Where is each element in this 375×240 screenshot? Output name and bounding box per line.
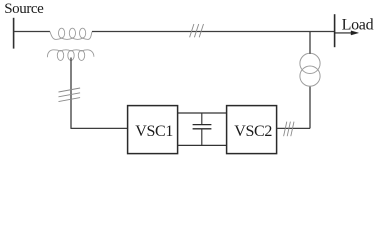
svg-text:VSC2: VSC2 [234,123,272,140]
DC link bottom rail [178,144,227,146]
wire: secondary coil down to VSC1 corner [70,58,72,129]
wire: series coil to load bus [92,31,335,33]
wire: source bus to series coil [14,31,50,33]
three-phase slash marks on series branch [59,88,81,102]
svg-text:Source: Source [4,1,44,17]
svg-text:Load: Load [342,16,374,33]
three-phase slash marks on main line [190,24,204,37]
DC link top rail [178,112,227,114]
wire: VSC2 to shunt transformer [277,127,310,129]
wire: transformer up to main line [309,32,311,54]
VSC2 box [227,106,277,154]
capacitor bottom lead [201,129,203,146]
three-phase slash marks on shunt branch [284,122,294,137]
VSC1 box [128,106,178,154]
capacitor plates [193,125,212,129]
wire: shunt branch vertical up to transformer [309,86,311,128]
load arrow [335,31,359,35]
series transformer secondary coil [47,50,94,61]
series transformer primary coil [50,28,92,39]
wire: corner to VSC1 [71,127,128,129]
svg-text:VSC1: VSC1 [135,123,173,140]
shunt transformer top winding [300,53,320,73]
shunt transformer bottom winding [300,66,320,86]
capacitor top lead [201,113,203,125]
source bus bar [13,18,15,49]
load bus bar [334,14,336,47]
